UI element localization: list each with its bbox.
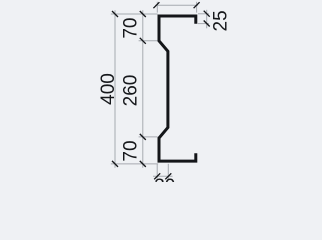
profile cross-section outline bbox=[159, 16, 196, 161]
extension line bottom flange bottom (y=163.3) bbox=[111, 163, 158, 165]
tick 260/70 boundary bbox=[140, 134, 146, 140]
tick top dim right bbox=[194, 2, 200, 8]
tick bottom dim right bbox=[165, 173, 171, 179]
extension line 25 dim upper (y=13.8) bbox=[198, 13, 209, 15]
dimension line bottom offset bbox=[153, 175, 173, 177]
svg-text:25: 25 bbox=[211, 10, 232, 31]
extension line top flange top (y=14) bbox=[111, 13, 158, 15]
svg-text:100: 100 bbox=[161, 0, 193, 2]
tick 70/260 boundary bbox=[140, 38, 146, 44]
dimension line 400 (left outer) bbox=[114, 10, 116, 168]
tick 70 dim top bbox=[140, 11, 146, 17]
dimension line 25 (right) bbox=[206, 10, 208, 29]
extension line 25 dim lower (y=23.6) bbox=[198, 23, 209, 25]
extension line 70/260 boundary (y=40.8) bbox=[139, 40, 158, 42]
tick bottom dim left bbox=[154, 173, 160, 179]
dimension line top width bbox=[155, 4, 198, 6]
extension line top dim left (x=157.3) bbox=[156, 2, 158, 13]
tick top dim left bbox=[153, 2, 159, 8]
tick 25 dim bottom bbox=[204, 21, 210, 27]
svg-text:70: 70 bbox=[121, 140, 142, 161]
extension line bottom dim right (x=168.3) bbox=[167, 164, 169, 179]
svg-text:400: 400 bbox=[98, 73, 119, 105]
svg-text:260: 260 bbox=[121, 75, 142, 107]
svg-text:30: 30 bbox=[154, 176, 175, 182]
tick 400 dim bottom bbox=[112, 161, 118, 167]
tick 25 dim top bbox=[204, 11, 210, 17]
tick 400 dim top bbox=[112, 11, 118, 17]
dimension line 70/260/70 (left inner) bbox=[142, 10, 144, 168]
tick 70 dim bottom bbox=[140, 161, 146, 167]
svg-text:70: 70 bbox=[121, 18, 142, 39]
extension line 260/70 boundary (y=136.9) bbox=[139, 136, 158, 138]
extension line top dim right (x=196.6) bbox=[196, 2, 198, 13]
extension line bottom dim left (x=157.2) bbox=[156, 164, 158, 179]
